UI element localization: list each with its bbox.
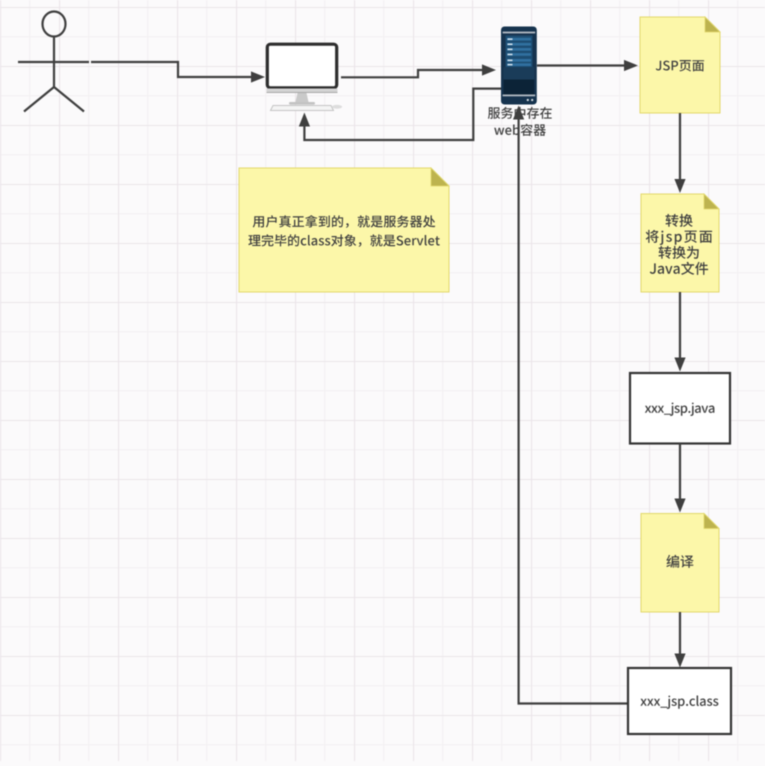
label: server holds web container [488,107,552,119]
label 转换/将jsp页面/转换为/Java文件 [666,214,693,227]
wire xxx_jsp.class back up to server [519,119,628,704]
arrowhead up into monitor keyboard [299,113,310,127]
note JSP page fold [705,17,720,32]
note convert jsp to java [641,194,719,292]
label xxx_jsp.class [640,696,718,709]
server tower (web container host) [501,27,537,105]
note convert fold [704,194,719,209]
note JSP page [640,17,720,113]
note compile fold [704,514,719,529]
wire server back to monitor [304,89,501,140]
wire actor to monitor [91,62,251,77]
arrowhead into monitor [251,71,265,82]
actor (user stick figure) [18,12,89,112]
arrowhead up into server bottom [513,106,524,120]
note servlet explanation fold [431,168,449,186]
label xxx_jsp.java [645,403,715,416]
arrow java box to compile note [679,444,681,500]
arrow compile note to class box [679,612,681,654]
arrow convert note to java box [679,292,681,358]
wire monitor to server [341,70,482,77]
label JSP页面 [656,60,704,72]
note compile [641,514,719,613]
box xxx_jsp.class [628,668,731,734]
arrowhead into server [482,64,496,75]
monitor (user computer) [267,44,343,110]
arrow JSP note to convert note [679,113,681,179]
label 编译 [666,555,693,568]
wire server to JSP page note [537,64,624,66]
arrowhead into JSP note [624,60,638,71]
note servlet explanation [239,168,449,292]
box xxx_jsp.java [630,373,730,444]
label servlet explanation text [253,215,436,228]
